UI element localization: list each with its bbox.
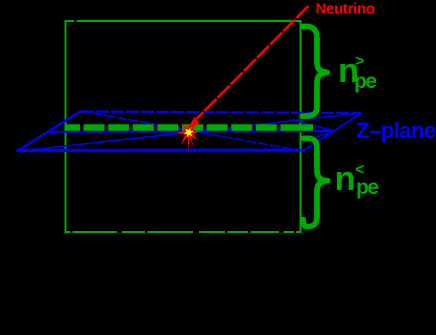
plane left edge [17,111,82,152]
svg-text:>: > [355,53,364,70]
plane back edge [81,112,361,114]
plane front edge [17,149,304,152]
plane diagonal BL-FR [81,111,303,151]
plane mid arrow lower barb [303,131,335,142]
svg-text:pe: pe [356,176,378,199]
plane right edge [303,113,361,151]
svg-text:pe: pe [354,70,376,93]
green band stub between braces [301,124,313,131]
neutrino dashed arrow line [197,6,309,119]
svg-text:Neutrino: Neutrino [316,1,375,18]
plane mid arrow shaft [48,130,335,133]
bottom curly brace [303,138,328,226]
svg-text:n: n [335,160,355,198]
svg-text:Z–plane: Z–plane [356,118,436,143]
star burst yellow core [184,127,194,137]
box bottom edge dash ticks [71,21,297,232]
green dashed Z-plane band [66,124,301,131]
star burst red [176,122,200,152]
top curly brace [303,27,327,117]
plane mid arrow upper barb [292,120,335,132]
label n_pe_sup_lt [335,160,379,199]
plane diagonal FL-BR [17,113,362,152]
neutrino arrowhead [188,117,200,129]
detector box (green rectangle) [66,21,301,232]
label n_pe_sup_gt [338,52,376,93]
